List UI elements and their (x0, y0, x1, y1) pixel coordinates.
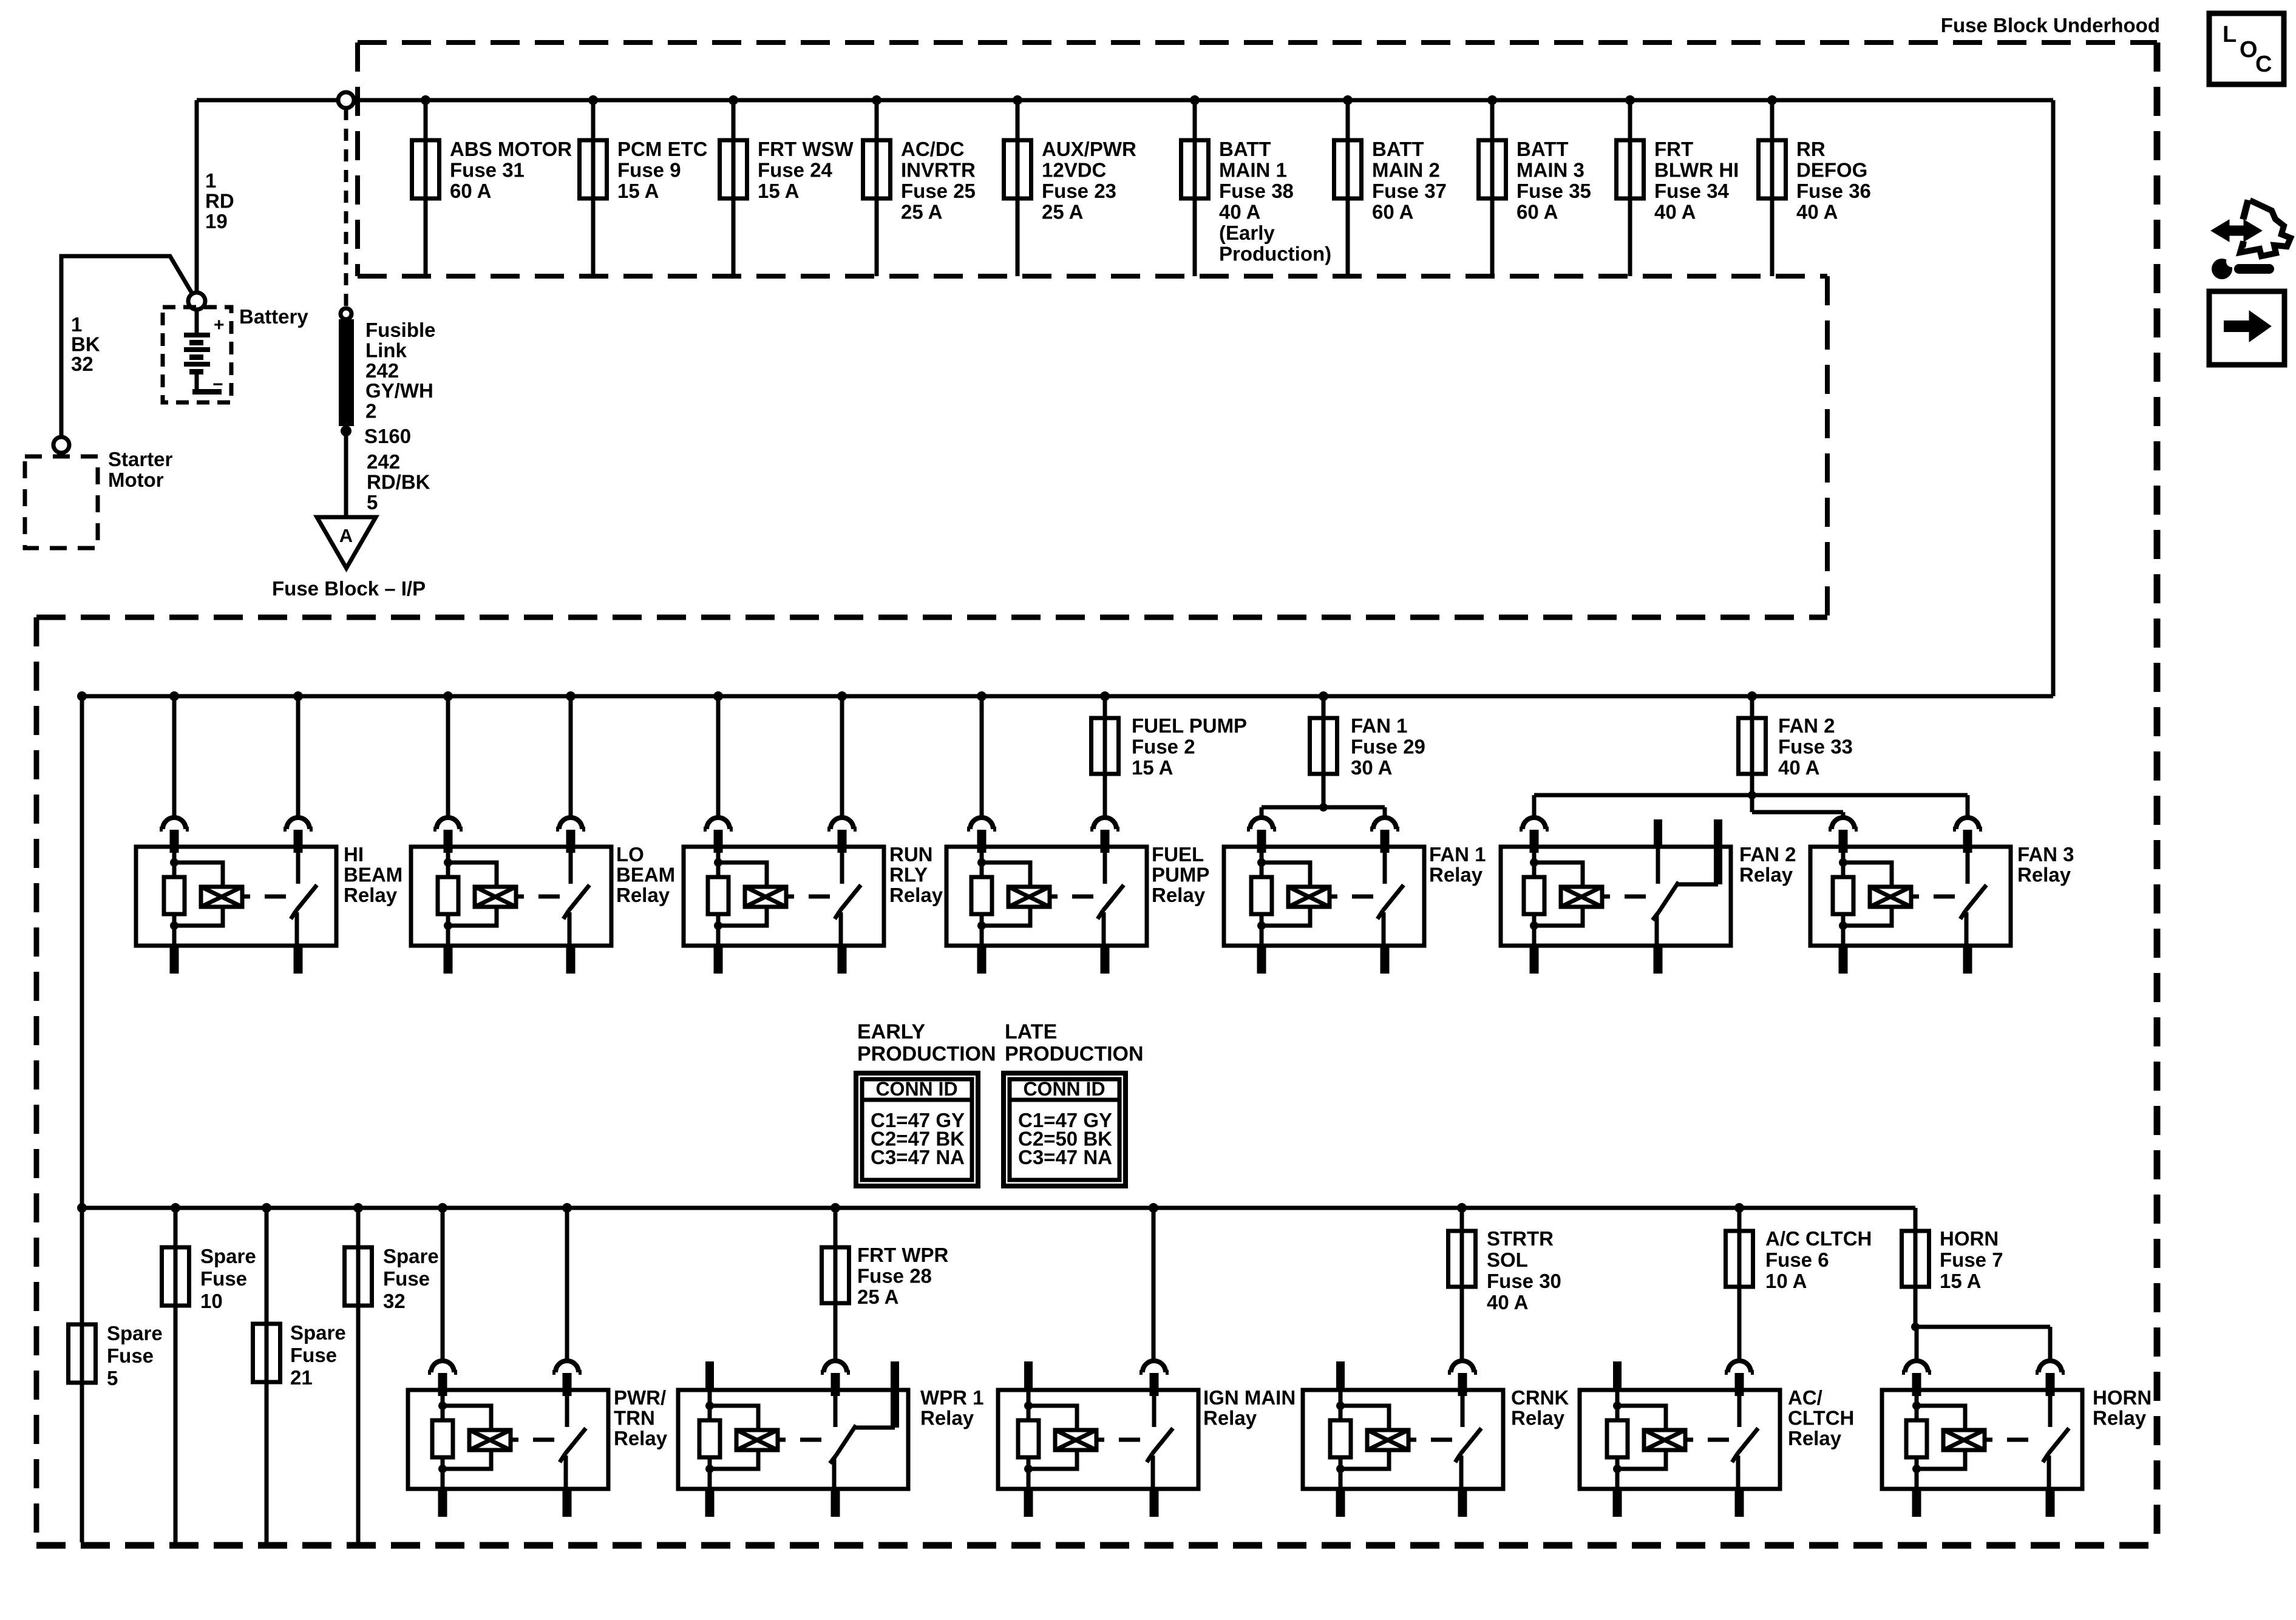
svg-text:21: 21 (290, 1366, 313, 1389)
svg-text:Spare: Spare (200, 1245, 256, 1267)
svg-text:25 A: 25 A (1042, 201, 1083, 223)
svg-text:25 A: 25 A (857, 1286, 898, 1308)
svg-text:SOL: SOL (1487, 1249, 1528, 1271)
svg-text:FAN 2: FAN 2 (1778, 714, 1835, 737)
svg-text:Relay: Relay (1739, 864, 1793, 886)
svg-text:C3=47 NA: C3=47 NA (871, 1146, 965, 1168)
svg-text:Battery: Battery (239, 305, 308, 328)
svg-text:Fuse 2: Fuse 2 (1132, 736, 1195, 758)
svg-text:Fuse 25: Fuse 25 (901, 180, 976, 202)
svg-text:CONN ID: CONN ID (875, 1078, 957, 1100)
svg-text:C3=47 NA: C3=47 NA (1018, 1146, 1112, 1168)
svg-text:BEAM: BEAM (616, 864, 675, 886)
svg-text:15 A: 15 A (617, 180, 659, 202)
svg-text:40 A: 40 A (1778, 756, 1819, 779)
svg-text:Fuse: Fuse (107, 1344, 154, 1367)
svg-text:Spare: Spare (383, 1245, 439, 1267)
svg-text:FUEL: FUEL (1152, 843, 1204, 866)
svg-text:TRN: TRN (614, 1407, 655, 1429)
svg-text:HORN: HORN (1940, 1227, 1999, 1250)
svg-text:Fuse 24: Fuse 24 (758, 159, 833, 181)
svg-text:1: 1 (205, 169, 216, 192)
svg-text:Fuse 6: Fuse 6 (1765, 1249, 1829, 1271)
svg-text:CONN ID: CONN ID (1023, 1078, 1105, 1100)
svg-text:FRT WPR: FRT WPR (857, 1244, 948, 1266)
svg-text:2: 2 (365, 400, 376, 422)
svg-text:RLY: RLY (889, 864, 928, 886)
svg-text:RR: RR (1796, 138, 1826, 160)
svg-text:FAN 3: FAN 3 (2017, 843, 2074, 866)
svg-text:242: 242 (365, 359, 399, 382)
svg-text:DEFOG: DEFOG (1796, 159, 1867, 181)
svg-text:40 A: 40 A (1796, 201, 1838, 223)
svg-text:Relay: Relay (920, 1407, 974, 1429)
svg-text:60 A: 60 A (1372, 201, 1413, 223)
svg-text:Fuse: Fuse (200, 1267, 247, 1290)
svg-text:FRT WSW: FRT WSW (758, 138, 854, 160)
svg-text:BLWR HI: BLWR HI (1654, 159, 1739, 181)
svg-text:FUEL PUMP: FUEL PUMP (1132, 714, 1247, 737)
svg-text:HI: HI (344, 843, 364, 866)
svg-text:Fuse 38: Fuse 38 (1219, 180, 1294, 202)
svg-text:RD: RD (205, 190, 234, 212)
svg-text:RUN: RUN (889, 843, 933, 866)
svg-text:Relay: Relay (889, 884, 943, 906)
svg-text:INVRTR: INVRTR (901, 159, 976, 181)
svg-text:1: 1 (71, 313, 82, 336)
svg-text:(Early: (Early (1219, 222, 1275, 244)
svg-text:Fuse 31: Fuse 31 (450, 159, 525, 181)
svg-text:+: + (214, 315, 225, 335)
svg-text:AC/: AC/ (1788, 1386, 1822, 1409)
svg-text:FAN 2: FAN 2 (1739, 843, 1796, 866)
svg-text:Fusible: Fusible (365, 319, 436, 341)
svg-text:BK: BK (71, 333, 100, 356)
svg-text:Relay: Relay (1152, 884, 1206, 906)
svg-text:Motor: Motor (108, 469, 164, 491)
svg-text:PWR/: PWR/ (614, 1386, 666, 1409)
svg-text:S160: S160 (364, 425, 411, 447)
svg-text:Production): Production) (1219, 243, 1331, 265)
svg-text:Fuse: Fuse (383, 1267, 430, 1290)
svg-text:LATE: LATE (1005, 1020, 1057, 1043)
svg-text:Relay: Relay (1788, 1427, 1842, 1449)
svg-text:Fuse 9: Fuse 9 (617, 159, 681, 181)
svg-text:Fuse 33: Fuse 33 (1778, 736, 1853, 758)
svg-text:Fuse 34: Fuse 34 (1654, 180, 1730, 202)
svg-text:HORN: HORN (2093, 1386, 2152, 1409)
svg-text:Fuse 28: Fuse 28 (857, 1265, 932, 1287)
svg-text:FRT: FRT (1654, 138, 1693, 160)
svg-text:EARLY: EARLY (857, 1020, 925, 1043)
svg-text:Link: Link (365, 339, 407, 361)
svg-text:Fuse 7: Fuse 7 (1940, 1249, 2003, 1271)
svg-text:40 A: 40 A (1654, 201, 1696, 223)
svg-text:30 A: 30 A (1351, 756, 1392, 779)
svg-text:Fuse 36: Fuse 36 (1796, 180, 1871, 202)
svg-text:Spare: Spare (107, 1322, 163, 1344)
svg-text:Fuse 30: Fuse 30 (1487, 1270, 1561, 1292)
svg-text:FAN 1: FAN 1 (1429, 843, 1486, 866)
svg-text:FAN 1: FAN 1 (1351, 714, 1408, 737)
svg-text:Fuse Block Underhood: Fuse Block Underhood (1941, 14, 2160, 36)
svg-text:Fuse 23: Fuse 23 (1042, 180, 1116, 202)
svg-text:LO: LO (616, 843, 644, 866)
svg-text:MAIN 2: MAIN 2 (1372, 159, 1440, 181)
svg-text:WPR 1: WPR 1 (920, 1386, 984, 1409)
svg-text:242: 242 (367, 450, 400, 473)
svg-text:−: − (212, 374, 223, 395)
svg-text:BATT: BATT (1372, 138, 1424, 160)
svg-text:BATT: BATT (1517, 138, 1569, 160)
svg-text:PRODUCTION: PRODUCTION (1005, 1043, 1144, 1066)
svg-text:Spare: Spare (290, 1321, 346, 1344)
svg-text:L: L (2223, 22, 2237, 47)
svg-text:PRODUCTION: PRODUCTION (857, 1043, 996, 1066)
svg-text:Relay: Relay (1203, 1407, 1257, 1429)
svg-text:CRNK: CRNK (1511, 1386, 1569, 1409)
svg-text:STRTR: STRTR (1487, 1227, 1554, 1250)
svg-text:Relay: Relay (1511, 1407, 1565, 1429)
svg-text:Relay: Relay (344, 884, 398, 906)
svg-text:C: C (2255, 52, 2272, 77)
svg-text:PCM ETC: PCM ETC (617, 138, 708, 160)
svg-text:15 A: 15 A (1940, 1270, 1981, 1292)
svg-text:15 A: 15 A (758, 180, 799, 202)
svg-text:5: 5 (107, 1367, 118, 1389)
svg-text:Fuse: Fuse (290, 1344, 337, 1366)
svg-text:CLTCH: CLTCH (1788, 1407, 1854, 1429)
svg-text:10 A: 10 A (1765, 1270, 1807, 1292)
svg-text:Starter: Starter (108, 448, 173, 470)
svg-text:A/C CLTCH: A/C CLTCH (1765, 1227, 1872, 1250)
svg-text:Fuse Block – I/P: Fuse Block – I/P (272, 577, 426, 600)
svg-text:10: 10 (200, 1290, 223, 1312)
svg-text:IGN MAIN: IGN MAIN (1203, 1386, 1296, 1409)
svg-text:AUX/PWR: AUX/PWR (1042, 138, 1136, 160)
svg-text:PUMP: PUMP (1152, 864, 1209, 886)
svg-text:Fuse 35: Fuse 35 (1517, 180, 1591, 202)
svg-text:32: 32 (383, 1290, 406, 1312)
svg-text:60 A: 60 A (450, 180, 491, 202)
svg-text:Fuse 29: Fuse 29 (1351, 736, 1425, 758)
svg-text:Relay: Relay (1429, 864, 1483, 886)
svg-text:BEAM: BEAM (344, 864, 402, 886)
svg-text:Relay: Relay (616, 884, 670, 906)
svg-text:15 A: 15 A (1132, 756, 1173, 779)
svg-text:Relay: Relay (614, 1427, 668, 1449)
svg-text:AC/DC: AC/DC (901, 138, 965, 160)
svg-text:60 A: 60 A (1517, 201, 1558, 223)
svg-text:25 A: 25 A (901, 201, 942, 223)
svg-text:5: 5 (367, 491, 378, 513)
svg-text:12VDC: 12VDC (1042, 159, 1106, 181)
svg-text:GY/WH: GY/WH (365, 379, 433, 402)
svg-text:Relay: Relay (2017, 864, 2071, 886)
svg-text:40 A: 40 A (1219, 201, 1260, 223)
svg-text:19: 19 (205, 210, 228, 232)
svg-text:MAIN 1: MAIN 1 (1219, 159, 1287, 181)
svg-text:A: A (339, 525, 353, 546)
svg-text:ABS MOTOR: ABS MOTOR (450, 138, 572, 160)
svg-text:RD/BK: RD/BK (367, 471, 430, 493)
svg-text:32: 32 (71, 353, 93, 375)
svg-text:Relay: Relay (2093, 1407, 2147, 1429)
svg-text:Fuse 37: Fuse 37 (1372, 180, 1447, 202)
svg-text:BATT: BATT (1219, 138, 1271, 160)
svg-text:40 A: 40 A (1487, 1291, 1528, 1313)
svg-text:MAIN 3: MAIN 3 (1517, 159, 1584, 181)
